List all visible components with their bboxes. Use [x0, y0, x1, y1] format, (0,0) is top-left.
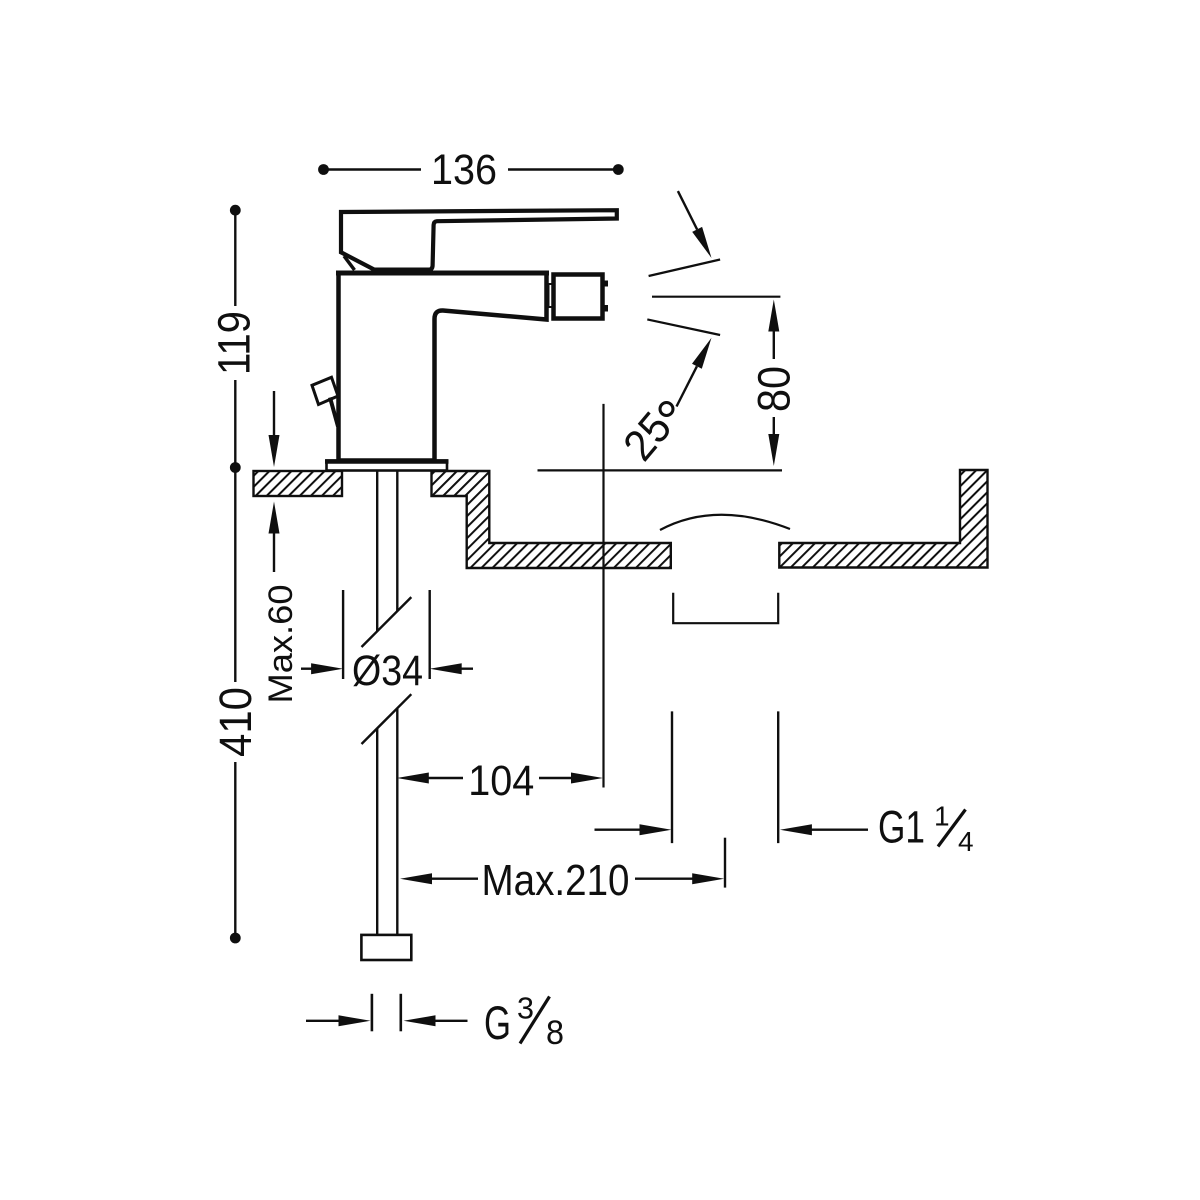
dimension 104 arrow left	[397, 773, 429, 784]
supply hose end connector	[361, 935, 411, 960]
spray upper ray	[649, 260, 721, 277]
dimension dot bottom	[230, 933, 241, 944]
drain pipe left line	[671, 711, 673, 843]
svg-text:80: 80	[748, 366, 799, 412]
svg-text:Max.60: Max.60	[262, 585, 300, 704]
dimension dot middle	[230, 462, 241, 473]
bidet deck and bowl step (hatched)	[432, 471, 671, 568]
dimension G 3/8 tick right	[399, 994, 402, 1032]
svg-text:Ø34: Ø34	[352, 647, 423, 695]
pipe break lower	[362, 694, 412, 744]
aerator tab bottom	[605, 305, 609, 312]
dimension G1 1/4 arrow right	[780, 824, 812, 835]
water dome arc over drain	[660, 515, 790, 530]
dimension G 3/8 arrow right	[404, 1015, 436, 1026]
dimension Max.210 arrow left	[400, 873, 432, 884]
dimension 136 line left	[324, 168, 422, 170]
dimension Ø34 arrow left	[301, 668, 316, 670]
supply pipe left line upper	[376, 471, 378, 632]
dimension G 3/8 tick left	[371, 994, 374, 1032]
dimension Ø34 ext line left	[342, 590, 344, 679]
aerator joint	[549, 284, 553, 307]
spout mouth level line	[652, 296, 780, 298]
svg-text:410: 410	[210, 687, 261, 757]
Max.60 arrow up	[269, 502, 280, 534]
dimension Ø34 ext line right	[429, 590, 431, 679]
Max.60 arrow down	[273, 391, 275, 437]
handle bottom cap line	[373, 268, 433, 273]
pop-up rod	[330, 398, 338, 427]
drain tailpiece bracket	[673, 593, 778, 623]
svg-text:1: 1	[934, 801, 950, 832]
svg-text:4: 4	[958, 826, 974, 857]
dimension 136 dot left	[318, 164, 329, 175]
spray lower ray	[647, 319, 720, 335]
faucet body top edge	[336, 271, 549, 276]
bidet shelf right of drain with upstand (hatched)	[779, 470, 987, 568]
svg-text:8: 8	[546, 1014, 564, 1052]
supply pipe left line lower	[376, 728, 378, 935]
base plate	[327, 461, 448, 471]
aerator tab top	[605, 281, 609, 287]
handle lever	[341, 210, 617, 270]
aerator box	[554, 275, 603, 319]
dimension Max.210 arrow right	[635, 878, 696, 880]
svg-text:G: G	[484, 996, 511, 1049]
dimension 136 dot right	[613, 164, 624, 175]
datum line at rim level	[538, 469, 783, 471]
supply pipe right line lower	[396, 708, 398, 935]
svg-text:104: 104	[468, 757, 534, 805]
leader arrow to lower ray	[677, 366, 697, 406]
dimension G 3/8 arrow left	[306, 1020, 342, 1022]
svg-text:136: 136	[431, 146, 497, 194]
leader arrow to upper ray	[678, 191, 697, 229]
dimension Ø34 arrow right	[430, 663, 462, 674]
dimension 119 line	[234, 210, 236, 306]
svg-text:119: 119	[208, 311, 259, 375]
svg-text:Max.210: Max.210	[482, 856, 630, 905]
pop-up knob	[312, 377, 338, 404]
pipe break upper	[362, 597, 412, 647]
svg-text:3: 3	[517, 991, 534, 1026]
dimension dot top	[230, 205, 241, 216]
counter slab left (hatched)	[254, 471, 343, 496]
dimension 136 line right	[508, 168, 618, 170]
dimension 410 line	[234, 468, 236, 683]
drain pipe right line	[777, 711, 779, 843]
jet axis line	[602, 404, 604, 788]
dimension G1 1/4 arrow left	[595, 829, 644, 831]
dimension 80 arrow up	[768, 300, 779, 332]
svg-text:G1: G1	[878, 802, 925, 853]
handle strut	[344, 256, 355, 270]
dimension 104 arrow right	[539, 777, 575, 779]
dimension Max.210 right tick	[724, 838, 726, 888]
dimension 80 arrow down	[773, 417, 775, 437]
faucet body	[339, 273, 547, 461]
supply pipe right line upper	[396, 471, 398, 612]
